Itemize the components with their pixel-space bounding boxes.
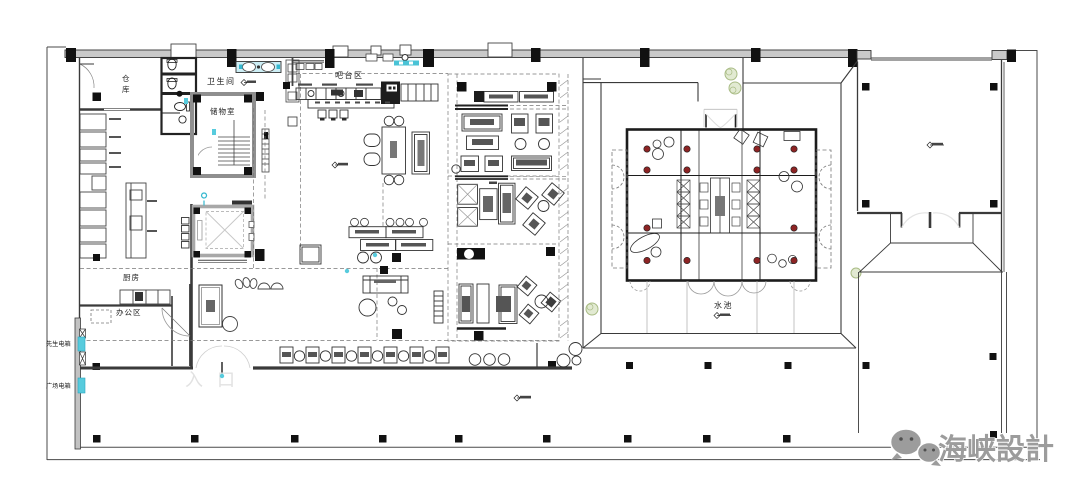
svg-text:仓: 仓 (122, 73, 131, 83)
svg-text:厨房: 厨房 (123, 272, 140, 282)
svg-text:先生电箱: 先生电箱 (46, 340, 71, 348)
svg-text:广场电箱: 广场电箱 (46, 382, 71, 390)
svg-text:吧台区: 吧台区 (335, 70, 364, 80)
svg-text:海峡設計: 海峡設計 (938, 432, 1054, 466)
svg-text:储物室: 储物室 (210, 106, 236, 116)
svg-text:入口: 入口 (185, 370, 249, 390)
svg-text:办公区: 办公区 (116, 307, 142, 317)
svg-text:卫生间: 卫生间 (207, 76, 236, 86)
svg-text:库: 库 (122, 84, 131, 94)
svg-text:水池: 水池 (714, 300, 733, 310)
